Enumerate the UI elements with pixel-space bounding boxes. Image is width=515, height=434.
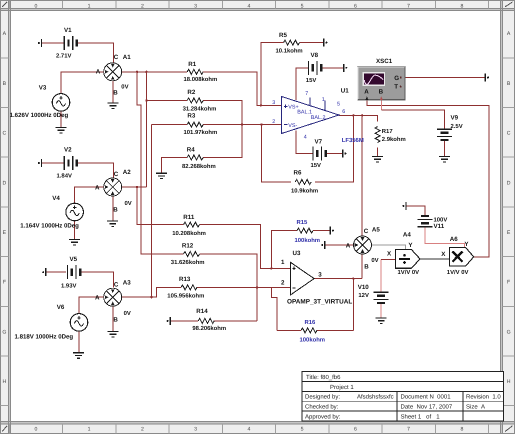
- svg-text:A: A: [95, 184, 100, 191]
- svg-text:1: 1: [88, 3, 91, 9]
- wire A2 B to ground: [112, 196, 114, 221]
- svg-text:V10: V10: [358, 284, 370, 291]
- wire R16 right lead: [317, 329, 353, 331]
- resistor R2: [183, 89, 217, 113]
- wire A2 output: [122, 186, 147, 188]
- svg-text:A4: A4: [403, 231, 411, 238]
- svg-text:G: G: [507, 329, 511, 335]
- svg-text:U1: U1: [341, 87, 349, 94]
- svg-text:1V/V 0V: 1V/V 0V: [398, 269, 420, 276]
- wire A3 output jog to R13: [122, 287, 181, 297]
- wire U1 output to R17: [339, 115, 378, 121]
- wire R15 riser to U3 pin1: [271, 231, 297, 269]
- wire R2 left lead: [146, 100, 187, 102]
- svg-text:A: A: [346, 242, 351, 249]
- svg-text:0V: 0V: [121, 84, 128, 91]
- svg-text:1.93V: 1.93V: [61, 282, 76, 289]
- ground V3: [56, 128, 67, 133]
- stub terminal V1: [38, 39, 42, 47]
- svg-text:10.9kohm: 10.9kohm: [291, 187, 318, 194]
- svg-text:1: 1: [281, 259, 285, 266]
- svg-text:4: 4: [304, 134, 307, 140]
- resistor R6: [291, 170, 318, 195]
- svg-text:R14: R14: [196, 308, 208, 315]
- svg-text:V5: V5: [70, 256, 78, 263]
- stub terminal R5: [324, 39, 328, 47]
- svg-text:V2: V2: [64, 147, 72, 154]
- svg-text:1: 1: [88, 427, 91, 433]
- resistor R1: [184, 61, 218, 83]
- wire V10 to ground: [380, 303, 382, 318]
- svg-text:R16: R16: [305, 319, 317, 326]
- resistor R5: [276, 32, 303, 55]
- svg-text:A: A: [3, 31, 7, 37]
- wire scope A to A6 output: [367, 100, 489, 257]
- wire R1 right to U1 pin 3: [203, 72, 281, 106]
- wire V6 to ground: [78, 331, 80, 352]
- svg-text:8: 8: [460, 427, 463, 433]
- svg-text:C: C: [114, 54, 119, 61]
- svg-text:1.164V 1000Hz 0Deg: 1.164V 1000Hz 0Deg: [20, 222, 79, 229]
- wire R15 right stub lead: [313, 230, 330, 232]
- wire R5 riser to pin3: [261, 43, 284, 106]
- wire V11 to A6 Y: [425, 226, 464, 247]
- svg-text:7: 7: [305, 91, 308, 97]
- svg-text:XSC1: XSC1: [376, 58, 393, 65]
- stub terminal V5: [42, 268, 46, 276]
- svg-text:BAL.2: BAL.2: [311, 115, 326, 121]
- stub terminal V11: [402, 202, 406, 210]
- svg-text:12V: 12V: [358, 292, 369, 299]
- svg-text:100kohm: 100kohm: [300, 337, 326, 344]
- resistor R14: [192, 308, 226, 332]
- svg-text:4: 4: [247, 3, 250, 9]
- svg-text:F: F: [507, 280, 510, 286]
- svg-text:6: 6: [354, 3, 357, 9]
- stub terminal V8: [344, 64, 348, 72]
- wire V3 to ground: [60, 111, 62, 127]
- svg-text:U3: U3: [293, 250, 301, 257]
- svg-text:G: G: [2, 329, 6, 335]
- svg-text:R5: R5: [279, 32, 287, 39]
- svg-text:A5: A5: [372, 226, 380, 233]
- svg-text:5: 5: [301, 3, 304, 9]
- multiplier A5: [346, 226, 381, 270]
- stub terminal V7: [343, 150, 347, 158]
- svg-text:D: D: [3, 180, 7, 186]
- title block: [302, 371, 504, 420]
- multiplier A6: [441, 236, 474, 276]
- svg-text:98.206kohm: 98.206kohm: [192, 325, 226, 332]
- svg-text:T: T: [394, 83, 398, 90]
- svg-text:2: 2: [281, 280, 285, 287]
- wire V10 to A4 X: [380, 259, 382, 291]
- wire scope B riser: [380, 100, 382, 110]
- wire scope G stub lead: [401, 77, 485, 79]
- svg-text:A6: A6: [450, 236, 458, 243]
- svg-text:Designed by:: Designed by:: [305, 394, 340, 401]
- svg-text:B: B: [364, 263, 369, 270]
- wire V1 to A1 C: [42, 42, 65, 44]
- resistor R15: [295, 219, 321, 244]
- svg-text:R3: R3: [187, 112, 195, 119]
- wire A5 A stub lead: [325, 244, 354, 246]
- ground V4: [69, 240, 80, 245]
- svg-text:V1: V1: [64, 27, 72, 34]
- svg-text:R12: R12: [182, 243, 194, 250]
- wire R14 right up: [214, 320, 257, 322]
- wire R6 right riser to output: [315, 115, 353, 182]
- svg-text:18.008kohm: 18.008kohm: [184, 76, 218, 83]
- svg-text:Revision 1.0: Revision 1.0: [466, 394, 501, 401]
- oscilloscope XSC1: [358, 58, 406, 100]
- svg-text:B: B: [113, 206, 118, 213]
- svg-text:2.9kohm: 2.9kohm: [382, 136, 406, 143]
- source V4: [20, 195, 83, 230]
- svg-text:Size A: Size A: [466, 404, 485, 411]
- svg-text:1: 1: [322, 97, 325, 103]
- svg-text:E: E: [3, 230, 7, 236]
- wire R3 row to U1 pin 2: [152, 124, 188, 126]
- svg-text:B: B: [379, 89, 384, 96]
- svg-text:1.626V 1000Hz 0Deg: 1.626V 1000Hz 0Deg: [10, 112, 69, 119]
- wire R16 riser to U3 output: [352, 279, 354, 331]
- junction dots: [136, 71, 363, 299]
- svg-text:V3: V3: [39, 85, 47, 92]
- svg-text:B: B: [113, 90, 118, 97]
- resistor R11: [172, 214, 206, 237]
- svg-text:7: 7: [407, 3, 410, 9]
- ground V6: [73, 353, 84, 358]
- svg-text:2: 2: [141, 427, 144, 433]
- wire R12 right down to pin2 row and R14: [200, 254, 257, 321]
- svg-text:Date Nov 17, 2007: Date Nov 17, 2007: [401, 404, 453, 411]
- svg-text:A: A: [95, 294, 100, 301]
- svg-text:LF356M: LF356M: [342, 137, 364, 144]
- wire A3 B to ground: [112, 306, 114, 331]
- battery V8: [306, 52, 321, 84]
- svg-text:R13: R13: [179, 276, 191, 283]
- ground A2: [107, 221, 118, 226]
- svg-text:R11: R11: [183, 214, 195, 221]
- wire U3 output row: [314, 278, 362, 280]
- ground A3: [108, 332, 119, 337]
- svg-text:V7: V7: [315, 139, 323, 146]
- wire U3 pin2 jog: [272, 287, 277, 330]
- svg-text:5: 5: [337, 101, 340, 107]
- ground V10: [376, 318, 387, 323]
- wire V11 stub lead: [406, 206, 425, 215]
- ground A1: [108, 103, 119, 108]
- svg-text:A3: A3: [123, 279, 131, 286]
- svg-text:0V: 0V: [124, 310, 131, 317]
- svg-text:BAL.1: BAL.1: [297, 110, 312, 116]
- svg-text:2.71V: 2.71V: [56, 53, 71, 60]
- battery V10: [358, 284, 389, 303]
- svg-text:B: B: [3, 81, 7, 87]
- svg-text:H: H: [507, 379, 511, 385]
- svg-text:H: H: [3, 379, 7, 385]
- wire A5 output to A4 Y: [372, 245, 406, 250]
- svg-text:1.84V: 1.84V: [57, 173, 72, 180]
- svg-text:Project 1: Project 1: [330, 384, 354, 391]
- resistor R13: [167, 276, 204, 299]
- svg-text:1.818V 1000Hz 0Deg: 1.818V 1000Hz 0Deg: [15, 333, 74, 340]
- stub terminal R14: [167, 317, 171, 325]
- wire R4 left to ground: [162, 158, 188, 173]
- resistor R4: [182, 147, 216, 171]
- wire A5 B to U3 output: [361, 254, 363, 278]
- svg-text:1V/V 0V: 1V/V 0V: [447, 269, 469, 276]
- svg-text:6: 6: [354, 427, 357, 433]
- svg-text:0: 0: [34, 3, 37, 9]
- stub terminal R15: [330, 227, 334, 235]
- wire V2 to A2 C: [42, 162, 65, 164]
- wire A1 B to ground: [112, 81, 114, 103]
- svg-text:C: C: [114, 171, 119, 178]
- stub terminal scope G: [485, 74, 489, 82]
- wire scope B to V9: [381, 110, 444, 128]
- svg-text:10.208kohm: 10.208kohm: [172, 230, 206, 237]
- svg-text:VS-: VS-: [288, 123, 297, 129]
- svg-text:0V: 0V: [125, 200, 132, 207]
- wire U1 pin4 to V7: [296, 130, 313, 153]
- svg-text:A: A: [96, 68, 101, 75]
- svg-text:8: 8: [460, 3, 463, 9]
- battery V7: [311, 139, 326, 169]
- svg-text:R2: R2: [187, 89, 195, 96]
- wire R6 left riser to pin2: [261, 125, 291, 182]
- svg-text:D: D: [507, 180, 511, 186]
- wire R11 right to U3 pin1: [200, 225, 291, 269]
- wire A1 output to R1 row: [122, 71, 187, 73]
- wire V9 to ground: [444, 141, 446, 157]
- battery V1: [56, 27, 77, 60]
- wire R13 right to U3 pin2: [197, 286, 290, 288]
- svg-text:C: C: [364, 228, 369, 235]
- svg-text:0: 0: [34, 427, 37, 433]
- svg-text:B: B: [507, 81, 511, 87]
- svg-text:R15: R15: [297, 219, 309, 226]
- wire bus A2 jog: [137, 72, 183, 254]
- svg-text:3: 3: [194, 427, 197, 433]
- wire V7 right stub lead: [326, 153, 343, 155]
- wire bus R11 feed: [137, 187, 183, 225]
- op-amp U1: [272, 87, 364, 144]
- svg-text:5: 5: [301, 427, 304, 433]
- svg-text:2: 2: [272, 119, 275, 125]
- svg-text:Checked by:: Checked by:: [305, 404, 339, 411]
- svg-text:2: 2: [141, 3, 144, 9]
- divider A4: [387, 231, 420, 276]
- battery V5: [61, 256, 80, 289]
- multiplier A1: [96, 54, 131, 97]
- svg-text:7: 7: [407, 427, 410, 433]
- svg-text:A1: A1: [123, 54, 131, 61]
- wire V4 to ground: [74, 221, 76, 239]
- svg-text:100kohm: 100kohm: [295, 237, 321, 244]
- wire R16 left lead: [277, 329, 301, 331]
- svg-text:V9: V9: [451, 114, 459, 121]
- svg-text:R6: R6: [294, 170, 302, 177]
- wire R5 right stub lead: [300, 42, 324, 44]
- battery V11: [418, 216, 448, 230]
- svg-text:2.5V: 2.5V: [451, 123, 463, 130]
- svg-text:C: C: [507, 131, 511, 137]
- resistor R12: [171, 243, 205, 267]
- svg-text:15V: 15V: [311, 162, 322, 169]
- svg-text:R4: R4: [187, 147, 195, 154]
- svg-text:Title: f80_fb6: Title: f80_fb6: [306, 374, 341, 381]
- multiplier A3: [95, 279, 131, 323]
- multiplier A2: [95, 169, 132, 213]
- wire V5 to A3 C: [46, 271, 66, 273]
- svg-text:4: 4: [247, 427, 250, 433]
- ground R4: [156, 173, 167, 178]
- svg-text:E: E: [507, 230, 511, 236]
- svg-text:3: 3: [194, 3, 197, 9]
- svg-text:V4: V4: [52, 195, 60, 202]
- wire R4 right up to pin2 row: [203, 125, 242, 158]
- resistor R16: [300, 319, 326, 344]
- source V3: [10, 85, 70, 120]
- wire A4 output to A6 X: [420, 258, 449, 260]
- svg-text:6: 6: [342, 109, 345, 115]
- ground R17: [372, 157, 383, 162]
- svg-text:R17: R17: [382, 128, 394, 135]
- svg-text:C: C: [114, 282, 119, 289]
- wire bus R13/A3 column: [151, 125, 153, 298]
- svg-text:105.956kohm: 105.956kohm: [167, 292, 204, 299]
- resistor R17: [375, 127, 406, 143]
- svg-text:A2: A2: [123, 169, 131, 176]
- stub terminal A5 A: [321, 241, 325, 249]
- svg-text:V11: V11: [434, 223, 445, 230]
- svg-text:15V: 15V: [306, 77, 317, 84]
- svg-text:G: G: [394, 75, 399, 82]
- battery V9: [437, 114, 463, 140]
- svg-text:3: 3: [272, 100, 275, 106]
- wire A5 C riser from output: [361, 115, 363, 236]
- svg-text:V8: V8: [311, 52, 319, 59]
- svg-text:Approved by:: Approved by:: [305, 413, 341, 420]
- svg-text:C: C: [3, 131, 7, 137]
- battery V2: [57, 147, 77, 180]
- wire R2 right down to pin2 row: [203, 101, 242, 125]
- wire V4 to A2 A: [75, 187, 104, 203]
- svg-text:Afsdshsfssxfc: Afsdshsfssxfc: [357, 394, 394, 401]
- svg-text:V6: V6: [57, 304, 65, 311]
- wire U1 pin7 to V8: [296, 68, 309, 100]
- svg-text:Document N 0001: Document N 0001: [401, 394, 452, 401]
- svg-text:82.268kohm: 82.268kohm: [182, 163, 216, 170]
- ground V9: [439, 157, 450, 162]
- svg-text:101.97kohm: 101.97kohm: [184, 129, 218, 136]
- svg-text:R1: R1: [188, 61, 196, 68]
- svg-text:F: F: [3, 280, 6, 286]
- svg-text:3: 3: [318, 271, 322, 278]
- op-amp U3: [281, 250, 352, 305]
- svg-text:A: A: [364, 89, 369, 96]
- svg-text:10.1kohm: 10.1kohm: [276, 48, 303, 55]
- svg-text:OPAMP_3T_VIRTUAL: OPAMP_3T_VIRTUAL: [287, 298, 352, 305]
- svg-text:B: B: [113, 317, 118, 324]
- source V6: [15, 304, 88, 340]
- wire bus R2 feed: [145, 72, 147, 187]
- wire R14 left stub lead: [170, 320, 198, 322]
- svg-text:31.626kohm: 31.626kohm: [171, 259, 205, 266]
- svg-text:Sheet 1 of 1: Sheet 1 of 1: [401, 413, 441, 420]
- svg-text:A: A: [507, 31, 511, 37]
- wire V3 to A1 A: [61, 72, 104, 94]
- svg-text:0V: 0V: [371, 257, 378, 264]
- stub terminal V2: [38, 159, 42, 167]
- wire V8 right stub lead: [322, 67, 344, 69]
- wire R17 to ground: [377, 148, 379, 157]
- wire V6 to A3 A: [79, 297, 104, 313]
- resistor R3: [184, 112, 218, 135]
